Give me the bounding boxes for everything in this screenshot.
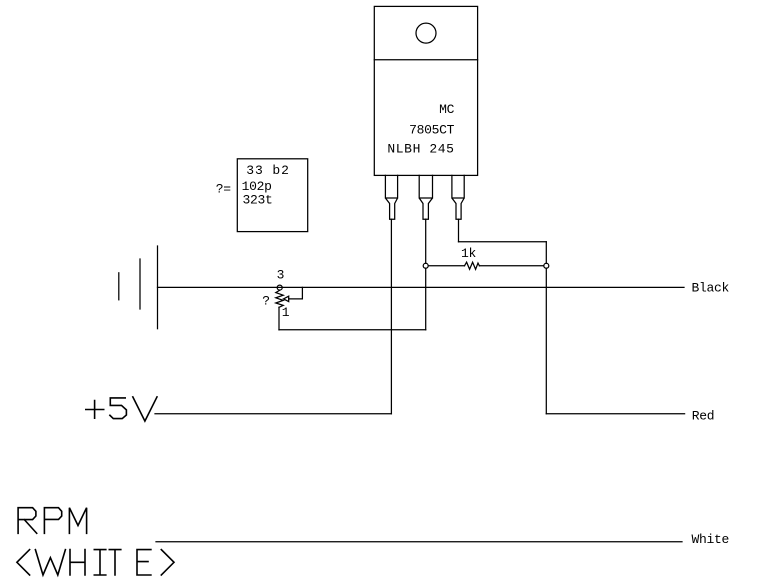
label WHITE letter W bbox=[35, 550, 65, 575]
U1 tab divider line bbox=[374, 59, 477, 61]
label WHITE letter H bbox=[70, 550, 85, 575]
svg-text:7805CT: 7805CT bbox=[409, 122, 455, 137]
label WHITE letter T bbox=[109, 550, 121, 575]
label RPM letter P bbox=[44, 508, 61, 534]
U1 pin 1 lead bbox=[385, 175, 397, 219]
battery B1 middle plate bbox=[139, 259, 141, 309]
wire wiper to Black net bbox=[289, 287, 303, 299]
node pot terminal 3 circle bbox=[277, 285, 282, 290]
wire U1 pin2 down to node A bbox=[425, 219, 427, 263]
wire right branch down to node B bbox=[545, 242, 547, 263]
label WHITE open paren bbox=[17, 550, 30, 575]
svg-text:?: ? bbox=[262, 294, 270, 309]
resistor R1 1k zigzag bbox=[465, 262, 480, 269]
svg-text:Red: Red bbox=[692, 409, 715, 424]
wire node B down to Red wire bbox=[545, 268, 547, 414]
svg-text:323t: 323t bbox=[243, 193, 273, 208]
label +5V letter V bbox=[133, 397, 157, 421]
svg-text:3: 3 bbox=[277, 268, 285, 283]
wire Black net horizontal bbox=[158, 286, 685, 288]
svg-text:Black: Black bbox=[692, 281, 730, 296]
U1 mounting hole bbox=[416, 23, 436, 43]
svg-text:MC: MC bbox=[439, 102, 455, 117]
wire pot bottom horizontal bbox=[279, 329, 426, 331]
wire Red lead horizontal bbox=[546, 413, 684, 415]
svg-text:1: 1 bbox=[282, 305, 290, 320]
svg-text:33 b2: 33 b2 bbox=[246, 163, 290, 178]
component box U2 outline bbox=[237, 159, 307, 232]
battery B1 long plate bbox=[157, 246, 159, 329]
label WHITE letter I bbox=[94, 550, 106, 575]
battery B1 short plate bbox=[118, 273, 120, 300]
potentiometer R2 wiper arrow bbox=[284, 296, 289, 301]
wire node A to resistor R1 bbox=[428, 265, 464, 267]
node B terminal circle bbox=[544, 263, 549, 268]
label +5V plus sign bbox=[86, 401, 104, 419]
label RPM letter R bbox=[18, 508, 37, 534]
node A terminal circle bbox=[423, 263, 428, 268]
potentiometer R2 element zigzag bbox=[276, 290, 283, 307]
svg-text:?=: ?= bbox=[216, 181, 232, 196]
wire U1 pin3 down bbox=[458, 219, 460, 242]
wire resistor R1 to node B bbox=[479, 265, 543, 267]
svg-text:NLBH 245: NLBH 245 bbox=[387, 141, 454, 156]
wire pot terminal 1 down bbox=[278, 307, 280, 330]
label +5V digit 5 bbox=[110, 398, 127, 419]
svg-text:102p: 102p bbox=[242, 179, 272, 194]
wire U1 pin1 to +5V rail bbox=[390, 219, 392, 414]
U1 pin 3 lead bbox=[452, 175, 464, 219]
label RPM letter M bbox=[69, 508, 86, 534]
wire +5V rail horizontal bbox=[155, 413, 391, 415]
U1 pin 2 lead bbox=[419, 175, 432, 219]
label WHITE letter E bbox=[137, 550, 151, 575]
wire White lead horizontal bbox=[156, 541, 682, 543]
regulator U1 MC7805CT package body bbox=[374, 6, 477, 175]
svg-text:White: White bbox=[692, 532, 730, 547]
wire node A down to pot bottom rail bbox=[425, 268, 427, 330]
wire pin3 horizontal over to right branch bbox=[459, 241, 547, 243]
svg-text:1k: 1k bbox=[461, 246, 477, 261]
label WHITE close paren bbox=[161, 550, 174, 575]
